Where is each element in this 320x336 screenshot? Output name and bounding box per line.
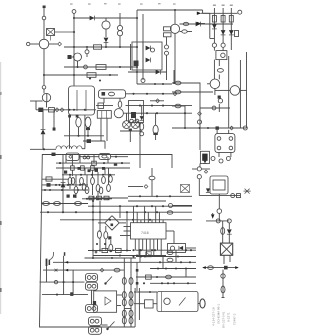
- switch bank SB5: [89, 326, 102, 334]
- tick: [222, 297, 225, 299]
- component K18: [70, 292, 73, 296]
- wire bus: [64, 46, 137, 48]
- wire: [171, 154, 173, 168]
- wire: [136, 261, 196, 263]
- wire: [202, 266, 239, 269]
- transistor Q2: [42, 93, 50, 101]
- node AO: [151, 48, 155, 52]
- contact: [170, 246, 174, 250]
- wire: [173, 70, 175, 84]
- jack J1: [46, 252, 54, 266]
- component X5: [146, 252, 151, 257]
- node D: [73, 17, 75, 33]
- wire: [30, 43, 40, 45]
- node AN: [140, 132, 144, 136]
- node AF: [86, 198, 110, 200]
- node AM: [146, 112, 186, 114]
- wire: [46, 93, 48, 102]
- control box CB1: [157, 292, 198, 312]
- component K11: [102, 92, 106, 96]
- relay RL1: [215, 134, 235, 153]
- IC U1 bottom pins: [135, 239, 161, 256]
- node C: [42, 86, 46, 90]
- wire: [180, 23, 234, 25]
- node AX: [54, 280, 74, 283]
- wire: [101, 118, 107, 141]
- wire: [136, 262, 138, 291]
- label ticks: [70, 3, 176, 4]
- wire bus: [88, 205, 192, 207]
- wire: [42, 184, 89, 186]
- relay RL3: [99, 90, 126, 98]
- node G: [76, 66, 121, 68]
- capacitor C14: [149, 168, 155, 196]
- wire: [126, 93, 178, 95]
- artifact: [0, 62, 2, 314]
- diode D7: [206, 188, 210, 192]
- capacitor C11: [109, 92, 115, 96]
- resistor R10: [46, 177, 52, 181]
- node AC: [68, 115, 78, 118]
- fuse F5: [122, 278, 133, 285]
- node T: [211, 157, 230, 164]
- contact: [85, 47, 89, 57]
- resistor R37: [99, 187, 103, 194]
- wire: [83, 141, 105, 149]
- wire: [127, 113, 136, 121]
- transistor Q7: [230, 86, 240, 96]
- wire: [214, 47, 223, 50]
- diode D5: [221, 30, 226, 35]
- wire: [88, 250, 131, 252]
- resistor R2: [87, 73, 96, 78]
- svg-text:4-134-227-18: 4-134-227-18: [212, 307, 216, 326]
- wire: [136, 10, 138, 84]
- node Q: [197, 120, 201, 124]
- node AK: [173, 92, 177, 96]
- wire: [203, 10, 238, 13]
- diode D2: [104, 38, 109, 43]
- contact: [217, 137, 233, 150]
- diode D4: [212, 24, 217, 29]
- wire: [128, 71, 167, 73]
- terminal T9: [169, 204, 173, 208]
- node AL: [139, 105, 164, 107]
- wire bus: [40, 211, 192, 213]
- switch SW1: [104, 277, 112, 285]
- diode D1: [90, 16, 95, 21]
- wire: [53, 261, 136, 263]
- node AT: [92, 200, 94, 252]
- contact: [83, 156, 90, 159]
- terminal T5: [243, 126, 247, 130]
- svg-text:SCHEMA 88-1: SCHEMA 88-1: [217, 304, 221, 324]
- relay RL4: [97, 111, 111, 119]
- transistor Q3: [102, 21, 110, 29]
- node H: [73, 74, 111, 82]
- wire: [99, 238, 101, 250]
- terminal T7: [211, 213, 215, 219]
- resistor R5: [212, 16, 216, 23]
- wire: [172, 91, 213, 93]
- terminal T8: [141, 79, 145, 83]
- relay RL5: [66, 153, 79, 160]
- fuse F4: [140, 123, 144, 130]
- terminal P1: [43, 6, 46, 17]
- node AI: [92, 219, 151, 221]
- wire: [174, 10, 176, 24]
- capacitor C9: [76, 118, 81, 136]
- rect box: [168, 244, 186, 253]
- wire: [210, 13, 215, 38]
- diode D6: [229, 30, 234, 35]
- resistor R11: [71, 154, 75, 176]
- component K15: [108, 236, 111, 239]
- resistor R34: [104, 196, 109, 200]
- node Y: [227, 219, 231, 223]
- component K6: [52, 153, 56, 156]
- wire: [230, 8, 232, 50]
- fuse F1: [43, 202, 50, 206]
- wire: [166, 55, 168, 80]
- resistor R17: [85, 175, 89, 194]
- diode D9: [41, 129, 46, 134]
- wire: [135, 288, 139, 327]
- resistor R16: [80, 177, 84, 184]
- wire: [41, 189, 88, 191]
- capacitor C8: [221, 286, 225, 293]
- wire: [219, 152, 231, 157]
- wire: [130, 44, 132, 70]
- bridge BR1: [105, 216, 119, 230]
- wire: [197, 12, 210, 16]
- component K17: [114, 164, 117, 166]
- wire: [102, 324, 108, 326]
- wire: [134, 303, 145, 305]
- resistor R12: [81, 166, 85, 170]
- resistor R14: [68, 175, 72, 189]
- wire: [206, 220, 229, 222]
- resistor R33: [97, 196, 102, 200]
- component K14: [131, 112, 136, 118]
- wire: [42, 294, 88, 296]
- wire: [91, 290, 93, 304]
- node K: [165, 45, 169, 55]
- capacitor C1: [183, 22, 188, 25]
- terminal T3: [72, 10, 76, 14]
- capacitor C17: [167, 251, 173, 255]
- resistor R30: [92, 161, 97, 165]
- resistor R21: [107, 168, 111, 192]
- component X2: [244, 189, 251, 194]
- component K13: [134, 61, 139, 67]
- diode D3: [196, 22, 201, 27]
- wire: [197, 22, 205, 26]
- wire: [123, 258, 125, 327]
- node AG: [92, 205, 164, 207]
- wire: [73, 13, 75, 86]
- diode D14: [156, 70, 161, 75]
- wire: [30, 100, 43, 102]
- wire: [166, 231, 174, 244]
- wire: [155, 113, 157, 140]
- opto U4: [210, 176, 228, 194]
- wire: [150, 100, 164, 102]
- wire: [213, 8, 215, 43]
- node J: [174, 9, 176, 11]
- wire: [79, 156, 99, 158]
- wire: [120, 131, 142, 142]
- wire: [82, 198, 112, 200]
- wire: [48, 43, 57, 45]
- diode D11: [140, 116, 144, 120]
- resistor R20: [102, 176, 106, 183]
- wire: [139, 123, 141, 169]
- wire: [70, 115, 85, 149]
- wire: [43, 48, 45, 85]
- node AR: [139, 195, 171, 197]
- wire: [174, 33, 176, 84]
- resistor R13: [91, 166, 95, 170]
- component K12: [129, 129, 132, 132]
- wire bus: [172, 127, 247, 129]
- wire: [98, 222, 126, 224]
- node AY: [56, 294, 58, 296]
- IC U1 top pins: [134, 206, 164, 223]
- wire: [140, 250, 186, 277]
- transistor Q5: [170, 24, 179, 33]
- resistor R38: [109, 176, 113, 183]
- wire: [47, 256, 74, 295]
- amplifier A1: [93, 291, 117, 312]
- wire: [130, 258, 132, 327]
- wire: [128, 200, 166, 202]
- component K16: [87, 139, 91, 143]
- node X4: [55, 269, 58, 272]
- component K9: [95, 169, 98, 172]
- wire: [136, 249, 196, 251]
- wire bus: [64, 66, 137, 68]
- wire: [105, 18, 107, 37]
- lamp LP1: [123, 121, 131, 129]
- title text: [212, 304, 237, 328]
- relay RL2: [69, 86, 95, 115]
- wire: [30, 148, 56, 150]
- rect box: [129, 101, 144, 123]
- resistor R36: [82, 184, 86, 191]
- wire: [166, 37, 168, 45]
- wire: [42, 110, 44, 129]
- wire: [222, 270, 224, 297]
- node U2d: [201, 169, 210, 173]
- wire: [141, 106, 143, 116]
- diode D12: [146, 46, 151, 51]
- rect box: [132, 42, 162, 70]
- wire bus: [36, 109, 96, 111]
- node BB: [144, 255, 191, 263]
- node BF: [132, 249, 142, 257]
- node X: [216, 219, 220, 223]
- wire: [199, 195, 240, 197]
- node AD: [67, 184, 81, 186]
- wire: [41, 203, 88, 205]
- resistor R19: [96, 172, 100, 199]
- wire: [88, 197, 128, 199]
- resistor R25: [109, 240, 113, 252]
- wire: [218, 194, 220, 209]
- resistor R28: [145, 300, 154, 308]
- resistor R4: [164, 33, 172, 37]
- diode D8: [227, 229, 232, 234]
- transformer TR1: [220, 243, 232, 255]
- node S: [230, 126, 234, 130]
- resistor R31: [94, 45, 102, 49]
- wire bus: [137, 9, 203, 11]
- wire: [43, 269, 124, 271]
- node Z: [221, 274, 225, 278]
- resistor R18: [91, 170, 95, 195]
- wire: [224, 255, 230, 264]
- resistor R1: [96, 65, 106, 70]
- wire: [43, 89, 45, 93]
- resistor R3: [164, 27, 172, 31]
- wire: [62, 174, 115, 176]
- wire: [85, 168, 105, 175]
- wire: [136, 256, 196, 258]
- resistor R9: [49, 108, 55, 112]
- component K3: [216, 126, 219, 129]
- inductor L1: [117, 25, 122, 35]
- fuse F3: [75, 202, 82, 206]
- wire: [173, 205, 193, 207]
- node B: [58, 42, 62, 46]
- wire: [92, 196, 94, 258]
- label tick: [213, 5, 233, 6]
- wire: [217, 130, 229, 134]
- capacitor C15: [167, 211, 173, 214]
- wire: [214, 89, 216, 95]
- node R: [184, 127, 209, 129]
- node F: [84, 65, 88, 69]
- wire: [200, 104, 230, 112]
- connector CN1: [198, 299, 205, 308]
- component K10: [67, 195, 77, 198]
- wire: [128, 186, 143, 188]
- resistor R7: [229, 16, 233, 23]
- svg-text:BV-227-041: BV-227-041: [222, 311, 226, 328]
- wire: [214, 56, 228, 128]
- wire: [215, 89, 247, 91]
- wire: [66, 155, 108, 164]
- node BA: [139, 249, 192, 251]
- node AU: [95, 251, 151, 256]
- wire bus: [56, 167, 130, 169]
- node L: [212, 43, 225, 47]
- resistor R29: [146, 275, 152, 279]
- wire: [105, 43, 107, 48]
- resistor R35: [71, 178, 75, 185]
- diode D15: [179, 246, 183, 250]
- node A: [42, 16, 46, 20]
- wire: [111, 156, 129, 158]
- resistor R22: [98, 103, 104, 108]
- resistor R23: [97, 231, 101, 239]
- wire: [124, 308, 131, 310]
- terminal T4: [238, 10, 242, 14]
- transistor Q1: [39, 39, 49, 49]
- switch bank SB1: [86, 274, 98, 282]
- wire: [123, 112, 192, 114]
- capacitor C6: [221, 228, 225, 235]
- component U2: [216, 51, 227, 60]
- resistor R32: [89, 196, 94, 200]
- resistor R15: [74, 175, 78, 198]
- wire: [126, 105, 193, 107]
- wire bus: [60, 219, 192, 221]
- wire: [72, 57, 78, 67]
- wire: [85, 257, 137, 259]
- wire: [42, 134, 44, 149]
- opto U3: [200, 151, 209, 163]
- node AF2: [69, 174, 111, 176]
- wire: [64, 135, 104, 137]
- wire: [96, 105, 113, 107]
- diode D10: [61, 183, 66, 188]
- wire: [119, 36, 121, 47]
- wire: [93, 255, 166, 257]
- wire: [199, 164, 201, 167]
- capacitor C7: [208, 266, 214, 270]
- node AW: [100, 268, 104, 272]
- node W: [217, 209, 222, 214]
- resistor R27: [116, 248, 122, 252]
- wire: [99, 201, 101, 232]
- fuse F8: [122, 310, 133, 317]
- wire: [62, 154, 64, 212]
- diode D13: [146, 58, 151, 63]
- wire bus: [56, 162, 130, 164]
- lamp LP2: [132, 121, 140, 129]
- node O: [156, 99, 160, 103]
- switch bank SB2: [86, 282, 98, 290]
- wire: [77, 90, 86, 111]
- wire: [137, 83, 172, 85]
- capacitor C19: [166, 275, 172, 279]
- wire: [142, 14, 144, 80]
- wire: [239, 60, 241, 128]
- terminal T6: [237, 194, 241, 198]
- wire: [222, 8, 224, 43]
- capacitor C3: [175, 81, 181, 85]
- node AZ: [134, 291, 157, 293]
- capacitor C12: [118, 98, 122, 107]
- component K7: [47, 183, 61, 187]
- node U: [197, 167, 201, 179]
- wire: [218, 213, 220, 221]
- capacitor C5: [175, 104, 181, 108]
- node AV: [96, 243, 128, 252]
- wire: [103, 98, 105, 103]
- node AB: [68, 109, 86, 111]
- wire: [40, 281, 85, 283]
- node AS: [144, 185, 148, 189]
- component K1: [68, 55, 72, 59]
- wire: [218, 60, 220, 80]
- node AH: [47, 211, 158, 213]
- IC U1 left pins: [120, 227, 131, 236]
- node V: [231, 194, 235, 198]
- capacitor C16: [114, 268, 120, 272]
